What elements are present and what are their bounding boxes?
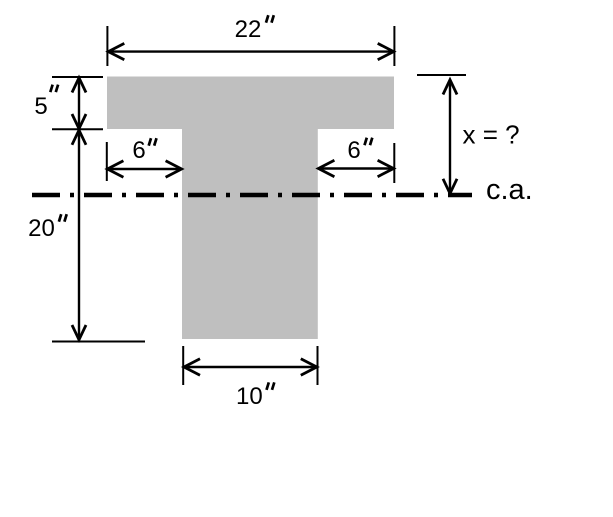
- dimension line 20in: [78, 131, 80, 340]
- arrowhead right 22in: [378, 43, 394, 59]
- svg-text:5: 5: [34, 93, 47, 120]
- svg-text:20: 20: [28, 215, 55, 242]
- arrowhead up 20in: [72, 130, 86, 145]
- dimension line x: [449, 81, 451, 193]
- extension line left of 22in dimension: [106, 26, 108, 66]
- tick bottom of 5in dimension: [52, 128, 103, 130]
- arrowhead left of left 6in: [107, 161, 123, 177]
- arrowhead left 22in: [108, 43, 124, 59]
- arrowhead left 10in: [184, 359, 200, 375]
- T-section flange: [107, 77, 394, 130]
- arrowhead right 10in: [301, 359, 317, 375]
- dimension line left 6in: [109, 168, 181, 170]
- arrowhead up x: [443, 80, 457, 95]
- extension line of right 6in dimension: [393, 143, 395, 183]
- svg-text:6: 6: [347, 137, 360, 164]
- arrowhead right of right 6in: [378, 160, 394, 176]
- dimension line 22in: [109, 50, 393, 52]
- svg-text:6: 6: [132, 137, 145, 164]
- svg-text:c.a.: c.a.: [486, 174, 533, 206]
- arrowhead up 5in: [72, 78, 86, 93]
- arrowhead down 5in: [72, 114, 86, 129]
- extension line of left 6in dimension: [106, 142, 108, 181]
- svg-text:x = ?: x = ?: [463, 120, 520, 150]
- arrowhead down x: [443, 179, 457, 194]
- double prime of right 6: [365, 138, 373, 146]
- double prime of 5: [50, 85, 58, 93]
- dimension line right 6in: [320, 167, 393, 169]
- double prime of left 6: [149, 138, 157, 146]
- extension line right of 22in dimension: [393, 26, 395, 66]
- dimension line 5in: [78, 79, 80, 129]
- arrowhead right of left 6in: [166, 161, 182, 177]
- arrowhead down 20in: [72, 325, 86, 340]
- T-section web: [182, 129, 318, 339]
- svg-text:22: 22: [235, 16, 262, 43]
- double prime of 20: [59, 214, 67, 222]
- tick top of 5in dimension: [52, 76, 103, 78]
- arrowhead left of right 6in: [318, 160, 334, 176]
- double prime of 10: [267, 382, 275, 390]
- centroidal axis dash-dot line: [32, 193, 472, 198]
- double prime of 22: [266, 15, 274, 23]
- extension line right of 10in dimension: [317, 346, 319, 385]
- dimension line 10in: [185, 366, 316, 368]
- svg-text:10: 10: [236, 383, 263, 410]
- tick bottom of 20in dimension: [52, 341, 145, 343]
- extension line left of 10in dimension: [182, 346, 184, 385]
- tick top of x dimension: [417, 74, 466, 76]
